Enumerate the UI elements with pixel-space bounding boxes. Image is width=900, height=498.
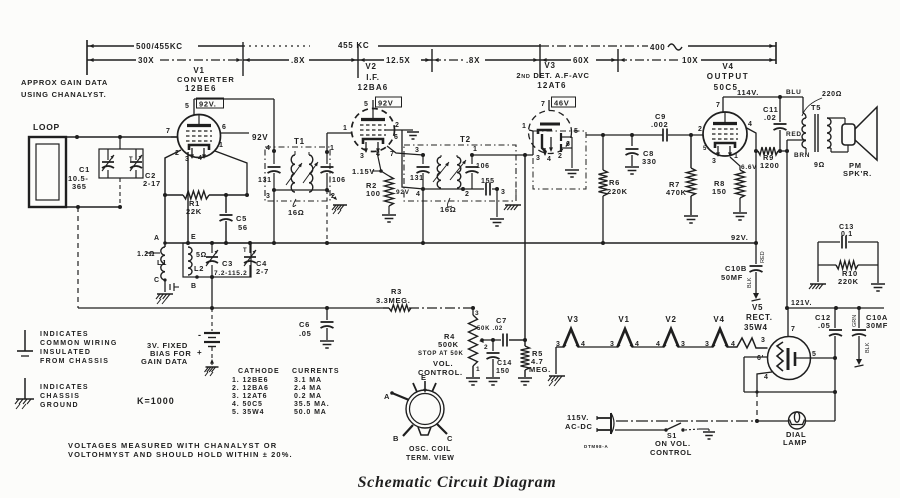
svg-text:L1: L1 (157, 258, 167, 267)
wire C1C2 top (119, 137, 121, 149)
pin 7 V2 plate wire (387, 146, 423, 158)
svg-text:R6: R6 (609, 178, 620, 187)
svg-text:330: 330 (642, 157, 657, 166)
svg-text:V1: V1 (618, 315, 629, 324)
C13 R10 right leg (871, 242, 885, 291)
svg-text:CONVERTER: CONVERTER (177, 75, 235, 84)
svg-text:E: E (421, 373, 427, 382)
svg-text:L2: L2 (194, 264, 204, 273)
ground C10B arrow (752, 288, 761, 301)
svg-text:DTM98-A: DTM98-A (584, 444, 608, 449)
pin 6 V1 screen (221, 124, 269, 142)
capacitor C2 (129, 149, 161, 188)
svg-text:CATHODE: CATHODE (238, 368, 280, 375)
svg-text:BLK: BLK (747, 277, 753, 288)
svg-text:T2: T2 (460, 135, 471, 144)
pin 2 V2 suppressor (385, 122, 413, 130)
T1 16ohm label (288, 199, 304, 217)
cathode V4 wire (730, 157, 757, 171)
wire B+ riser (785, 140, 789, 308)
ground C8 (625, 167, 639, 174)
svg-text:5Ω: 5Ω (196, 252, 207, 259)
svg-text:A: A (154, 235, 160, 242)
svg-text:C: C (154, 277, 160, 284)
pin 7 V4 lead (716, 97, 723, 112)
capacitor C11 .02 (763, 95, 787, 151)
wire AVC riser dashed (77, 207, 79, 308)
svg-text:V2: V2 (365, 62, 376, 71)
resistor R8 150 (712, 170, 745, 212)
svg-text:V2: V2 (665, 315, 676, 324)
svg-text:50.0 MA: 50.0 MA (294, 409, 327, 416)
svg-text:6: 6 (566, 141, 571, 148)
svg-text:1.15V: 1.15V (352, 167, 375, 176)
svg-text:92V: 92V (252, 133, 268, 142)
svg-text:V3: V3 (567, 315, 578, 324)
cathode 1.15V tap (352, 167, 383, 176)
svg-text:470K: 470K (666, 188, 687, 197)
voltage 46V at V3 (552, 97, 576, 108)
heater V1 (610, 315, 640, 348)
osc coil terminal A (154, 235, 167, 247)
svg-text:6.6V: 6.6V (741, 164, 757, 171)
svg-text:3.3MEG.: 3.3MEG. (376, 296, 411, 305)
pin 3 1 V4 (703, 146, 739, 165)
svg-text:C3: C3 (222, 259, 233, 268)
T1 bottom wire (266, 188, 336, 200)
svg-text:2-7: 2-7 (256, 267, 269, 276)
voltage 92V at V1 plate (197, 98, 224, 109)
svg-text:C13: C13 (839, 224, 854, 231)
svg-text:3: 3 (415, 147, 420, 154)
svg-text:BLK: BLK (865, 342, 871, 353)
svg-text:5. 35W4: 5. 35W4 (232, 409, 264, 416)
pin 7 V1 grid (166, 128, 178, 137)
pin 3 V5 (0, 0, 1, 1)
svg-text:1: 1 (330, 145, 335, 152)
svg-text:3. 12AT6: 3. 12AT6 (232, 393, 267, 400)
svg-text:1. 12BE6: 1. 12BE6 (232, 377, 268, 384)
svg-text:3: 3 (705, 341, 710, 348)
ruler tick left end (87, 40, 94, 75)
svg-text:9Ω: 9Ω (814, 162, 825, 169)
wire C1C2 bottom dashed (118, 178, 122, 209)
tube V3 12AT6 (529, 111, 572, 157)
svg-text:AC-DC: AC-DC (565, 422, 593, 431)
wire screen drop (755, 151, 757, 243)
ground switch (699, 429, 715, 439)
svg-text:OSC. COIL: OSC. COIL (409, 446, 451, 453)
svg-text:GROUND: GROUND (40, 402, 79, 409)
svg-text:1: 1 (522, 123, 527, 130)
osc coil terminal B (191, 275, 199, 290)
ground osc coil C (156, 294, 173, 304)
label BLU (786, 89, 801, 96)
wire loop to V1 grid (60, 135, 177, 139)
voltage 114V (737, 88, 759, 97)
resistor R10 220K (818, 261, 878, 286)
label V4 output (707, 62, 750, 92)
svg-text:35W4: 35W4 (744, 323, 768, 332)
wire det out (586, 133, 663, 137)
tube V5 35W4 (768, 337, 811, 380)
svg-text:V5: V5 (752, 303, 763, 312)
resistor R6 220K (599, 135, 628, 243)
capacitor C7 .02 (477, 316, 527, 347)
wire T1 pin3 to bus (273, 190, 275, 243)
svg-text:.02: .02 (764, 113, 777, 122)
svg-text:92V.: 92V. (731, 233, 749, 242)
svg-text:10X: 10X (682, 56, 698, 65)
pin 5 V1 plate lead (185, 99, 194, 115)
svg-text:50MF: 50MF (721, 273, 743, 282)
ground R8 (733, 213, 747, 220)
ground T1 pin2 (327, 190, 347, 243)
loop antenna (29, 122, 66, 207)
svg-text:115V.: 115V. (567, 413, 589, 422)
resistor R9 1200 (754, 147, 787, 170)
svg-text:3: 3 (475, 310, 479, 317)
svg-text:30MF: 30MF (866, 321, 888, 330)
label V3 det (516, 61, 589, 90)
battery 3V bias (197, 308, 220, 376)
svg-text:121V.: 121V. (791, 300, 812, 307)
svg-text:455 KC: 455 KC (338, 41, 369, 50)
svg-text:4: 4 (656, 341, 661, 348)
transformer T1 box (265, 137, 330, 201)
svg-text:+: + (197, 348, 202, 357)
svg-text:1: 1 (476, 366, 480, 373)
svg-text:500K: 500K (438, 340, 459, 349)
svg-text:12.5X: 12.5X (386, 56, 410, 65)
svg-text:2: 2 (484, 344, 488, 351)
T1 secondary coil (303, 152, 318, 192)
osc coil L1 (137, 247, 167, 280)
svg-text:USING CHANALYST.: USING CHANALYST. (21, 90, 106, 99)
svg-text:OUTPUT: OUTPUT (707, 72, 750, 81)
note 3V fixed bias (141, 341, 191, 366)
svg-text:C1: C1 (79, 165, 90, 174)
svg-text:K=1000: K=1000 (137, 396, 175, 406)
voltage 92V at V2 (376, 97, 402, 108)
svg-text:92V.: 92V. (199, 100, 217, 109)
svg-text:3: 3 (501, 189, 506, 196)
svg-text:3: 3 (360, 153, 365, 160)
wire T2 gnd (490, 189, 504, 226)
svg-text:VOLTAGES MEASURED WITH CHAN: VOLTAGES MEASURED WITH CHANALYST OR (68, 441, 277, 450)
legend insulated text (40, 331, 118, 365)
pin 3 4 V1 (185, 155, 203, 163)
svg-text:4: 4 (764, 374, 769, 381)
svg-text:56: 56 (238, 223, 248, 232)
svg-text:7: 7 (791, 326, 796, 333)
capacitor C5 56 (220, 195, 248, 243)
svg-text:COMMON WIRING: COMMON WIRING (40, 340, 118, 347)
heater wire to V5 (728, 337, 768, 348)
T2 pin 3 (415, 147, 425, 157)
label V2 IF (358, 62, 389, 92)
diode plates V3 (558, 128, 579, 160)
ground R5 (518, 378, 532, 385)
svg-text:RED: RED (760, 251, 766, 263)
osc coil L2 (188, 247, 207, 275)
svg-text:12BE6: 12BE6 (185, 84, 217, 93)
svg-text:V4: V4 (722, 62, 733, 71)
svg-text:.05: .05 (299, 329, 312, 338)
svg-text:106: 106 (332, 177, 346, 184)
wire T2 to V3 grid (472, 130, 533, 157)
capacitor T2 106 (466, 155, 490, 189)
wire V4 plate (723, 97, 803, 113)
tube V4 50C5 (703, 112, 747, 157)
svg-text:35.5 MA.: 35.5 MA. (294, 401, 330, 408)
svg-text:2: 2 (698, 126, 703, 133)
svg-text:365: 365 (72, 182, 87, 191)
svg-text:R3: R3 (391, 287, 402, 296)
resistor R5 4.7MEG (521, 346, 551, 377)
heater V4 (705, 315, 736, 348)
ruler tick x432 (425, 49, 438, 72)
svg-text:16Ω: 16Ω (440, 205, 456, 214)
svg-text:1: 1 (734, 153, 739, 160)
svg-text:RECT.: RECT. (746, 313, 773, 322)
svg-text:RED: RED (786, 131, 802, 138)
svg-text:2: 2 (395, 122, 400, 129)
resistor R2 100 (366, 152, 394, 214)
resistor R7 470K (666, 135, 696, 215)
svg-text:4: 4 (748, 121, 753, 128)
svg-text:V4: V4 (713, 315, 724, 324)
svg-text:VOLTOHMYST AND SHOULD HOLD WIT: VOLTOHMYST AND SHOULD HOLD WITHIN ± 20%. (68, 450, 293, 459)
speaker PM (827, 107, 877, 178)
svg-text:A: A (384, 392, 390, 401)
capacitor C13 0.1 (818, 224, 878, 249)
capacitor C4 trimmer (243, 241, 269, 277)
svg-text:2: 2 (558, 153, 563, 160)
label V1 converter (177, 66, 235, 93)
svg-text:6: 6 (394, 134, 399, 141)
svg-text:2.4 MA: 2.4 MA (294, 385, 322, 392)
C13 R10 left leg (809, 242, 826, 289)
svg-text:131: 131 (258, 177, 272, 184)
capacitor 155 (481, 178, 506, 196)
T1 pin 4 (266, 145, 276, 153)
svg-text:60X: 60X (573, 56, 589, 65)
svg-text:5: 5 (364, 101, 369, 108)
legend chassis text (40, 384, 89, 409)
svg-text:LAMP: LAMP (783, 438, 807, 447)
svg-text:C7: C7 (496, 316, 507, 325)
svg-text:FROM CHASSIS: FROM CHASSIS (40, 358, 109, 365)
svg-text:B: B (191, 283, 197, 290)
svg-text:106: 106 (476, 163, 490, 170)
svg-text:APPROX GAIN DATA: APPROX GAIN DATA (21, 78, 108, 87)
svg-text:.8X: .8X (291, 56, 305, 65)
tube V1 12BE6 (178, 115, 221, 160)
svg-text:3: 3 (536, 155, 541, 162)
pin 7 V3 lead (541, 100, 549, 111)
svg-text:114V.: 114V. (737, 88, 759, 97)
svg-text:T5: T5 (811, 103, 821, 112)
svg-text:VOL.: VOL. (433, 359, 453, 368)
capacitor C6 .05 (299, 308, 334, 340)
capacitor C8 330 (626, 135, 657, 166)
svg-text:100: 100 (366, 189, 381, 198)
svg-text:4. 50C5: 4. 50C5 (232, 401, 263, 408)
svg-text:B: B (393, 434, 399, 443)
svg-text:12AT6: 12AT6 (537, 81, 566, 90)
capacitor C1 (68, 149, 143, 191)
wire T1 to V2 grid (327, 125, 352, 152)
svg-text:1200: 1200 (760, 161, 780, 170)
svg-text:TERM. VIEW: TERM. VIEW (406, 455, 455, 462)
heater wire a (579, 346, 618, 348)
svg-text:V3: V3 (544, 61, 555, 70)
label part number (584, 444, 608, 449)
wire V1 cathode to E (187, 152, 189, 243)
detector box V3 (533, 131, 586, 189)
tube V2 12BA6 (352, 109, 395, 154)
wire C9 to V4 grid (668, 126, 703, 137)
wire T2 pin4 to bus (422, 189, 424, 243)
ground C14 (486, 378, 500, 385)
ruler tick x540 V3 (533, 44, 546, 78)
svg-text:CURRENTS: CURRENTS (292, 368, 340, 375)
capacitor C9 .002 (651, 112, 668, 142)
pin 4 V4 screen (747, 121, 756, 151)
wire plug to switch (615, 429, 665, 431)
ground R4 (466, 378, 480, 385)
title (358, 474, 557, 491)
svg-text:16Ω: 16Ω (288, 208, 304, 217)
wire loop bottom (66, 205, 120, 209)
svg-text:STOP AT 50K: STOP AT 50K (418, 351, 464, 357)
svg-text:5: 5 (703, 146, 707, 152)
svg-text:ON VOL.: ON VOL. (655, 439, 691, 448)
svg-text:2. 12BA6: 2. 12BA6 (232, 385, 269, 392)
AVC wire (78, 306, 383, 310)
frequency ruler line gain multipliers (87, 56, 776, 65)
capacitor T1 131 (258, 151, 281, 190)
svg-text:220K: 220K (838, 277, 859, 286)
svg-text:T: T (243, 248, 247, 254)
svg-text:92V: 92V (396, 189, 410, 196)
ruler tick x358 V2 (351, 44, 364, 78)
legend K (137, 396, 175, 406)
svg-text:220Ω: 220Ω (822, 91, 842, 98)
svg-text:30X: 30X (138, 56, 154, 65)
svg-text:C10B: C10B (725, 264, 747, 273)
capacitor C12 .05 (815, 308, 842, 358)
T1 pin 1 (325, 145, 335, 154)
svg-text:5: 5 (185, 103, 190, 110)
transformer T2 box (404, 135, 516, 201)
AVC wire chain (409, 306, 475, 310)
svg-text:.05: .05 (818, 321, 831, 330)
power plug 115V (565, 413, 614, 434)
svg-text:400: 400 (650, 43, 665, 52)
ground R7 (684, 216, 698, 223)
wire volume to V3 (524, 155, 526, 346)
svg-text:E: E (191, 234, 196, 241)
capacitor T2 131 (410, 155, 430, 189)
note voltages (68, 441, 293, 459)
ground T2 box corner (504, 189, 521, 210)
osc box (183, 243, 251, 277)
svg-text:MEG.: MEG. (529, 365, 551, 374)
svg-text:50C5: 50C5 (714, 83, 739, 92)
capacitor C10A 30MF (852, 308, 888, 354)
svg-text:GRN: GRN (852, 315, 858, 327)
svg-text:4: 4 (547, 156, 552, 163)
pin 6 V5 (744, 355, 768, 362)
resistor R1 22K (163, 191, 249, 216)
svg-text:LOOP: LOOP (33, 122, 60, 132)
svg-text:GAIN DATA: GAIN DATA (141, 357, 188, 366)
svg-text:1: 1 (473, 146, 478, 153)
svg-text:SPK'R.: SPK'R. (843, 169, 872, 178)
capacitor C14 150 (487, 340, 512, 377)
svg-text:150: 150 (496, 368, 510, 375)
svg-text:C14: C14 (497, 360, 512, 367)
svg-text:3: 3 (761, 337, 766, 344)
voltage 92V bus (731, 233, 749, 242)
T2 primary coil (433, 155, 449, 188)
svg-text:3: 3 (610, 341, 615, 348)
heater wire b (633, 346, 664, 348)
svg-text:0.1: 0.1 (841, 231, 853, 238)
legend insulated symbol (17, 330, 33, 356)
svg-text:INDICATES: INDICATES (40, 331, 89, 338)
wire V5 heater loop (744, 357, 837, 394)
pin 5 V5 (800, 351, 837, 360)
svg-text:.002: .002 (651, 120, 668, 129)
capacitor C10B 50MF (721, 243, 766, 288)
svg-text:4: 4 (266, 145, 271, 152)
svg-text:3.1 MA: 3.1 MA (294, 377, 322, 384)
svg-text:1: 1 (219, 142, 224, 149)
svg-text:220K: 220K (607, 187, 628, 196)
svg-text:BRN: BRN (794, 152, 810, 159)
T2 bottom wire (416, 187, 484, 198)
svg-text:5: 5 (812, 351, 817, 358)
svg-text:C: C (447, 434, 453, 443)
svg-text:0.2 MA: 0.2 MA (294, 393, 322, 400)
svg-text:C5: C5 (236, 214, 247, 223)
svg-text:1: 1 (343, 125, 348, 132)
svg-text:12BA6: 12BA6 (358, 83, 389, 92)
ruler tick x243 (236, 42, 249, 76)
resistor R3 3.3MEG (376, 287, 411, 311)
svg-text:4: 4 (416, 191, 421, 198)
svg-text:1.2Ω: 1.2Ω (137, 251, 155, 258)
svg-text:INDICATES: INDICATES (40, 384, 89, 391)
svg-text:C6: C6 (299, 320, 310, 329)
T2 pin 1 (470, 146, 478, 157)
transformer T5 (802, 103, 831, 152)
ruler right end bracket (769, 42, 776, 64)
pin 7 V5 (788, 308, 796, 337)
svg-text:4: 4 (198, 155, 203, 162)
svg-text:.8X: .8X (466, 56, 480, 65)
wire osc box to AVC (210, 277, 214, 310)
B+ 92V bus wire (165, 241, 758, 245)
heater V2 (656, 315, 686, 348)
ground C10A arrow (855, 354, 864, 367)
table cathode currents (232, 368, 340, 416)
note approx gain data (21, 78, 108, 99)
svg-text:46V: 46V (554, 99, 569, 108)
